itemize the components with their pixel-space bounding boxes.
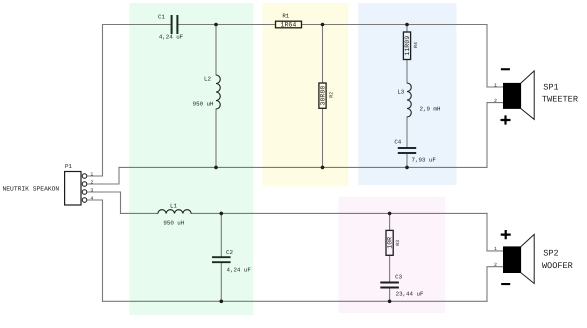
- junction C2 bottom: [220, 300, 224, 304]
- highlight region pink (zobel section): [338, 197, 445, 313]
- highlight region yellow (R divider section): [263, 3, 349, 187]
- svg-text:1: 1: [90, 171, 93, 177]
- svg-text:R3: R3: [395, 240, 401, 246]
- svg-text:950 uH: 950 uH: [163, 220, 184, 227]
- svg-text:2: 2: [90, 179, 93, 185]
- svg-text:10R: 10R: [387, 237, 394, 249]
- junction C4 bottom: [405, 166, 409, 170]
- junction C3 bottom: [388, 300, 392, 304]
- svg-text:C1: C1: [158, 13, 165, 20]
- svg-text:SP1: SP1: [543, 83, 558, 93]
- svg-text:WOOFER: WOOFER: [542, 261, 573, 271]
- wire R2 bottom stub: [322, 108, 324, 167]
- svg-text:30R80: 30R80: [320, 86, 327, 106]
- wire woofer pin1 drop: [487, 213, 504, 251]
- wire woofer pin2 drop: [487, 267, 504, 302]
- wire C2 top stub: [220, 213, 222, 256]
- pin 3 of P1: [82, 187, 93, 194]
- inductor L2: [193, 75, 221, 109]
- svg-text:1R64: 1R64: [280, 22, 296, 29]
- wire P1 pin2 to mid rail: [87, 167, 119, 184]
- wire C4 bottom stub: [406, 154, 408, 167]
- svg-text:23,44 uF: 23,44 uF: [396, 291, 424, 298]
- junction R4 top: [405, 23, 409, 27]
- svg-text:P1: P1: [65, 163, 72, 170]
- SP1 minus polarity: [501, 68, 510, 70]
- svg-text:11R09: 11R09: [404, 36, 411, 56]
- speaker SP2: [504, 234, 573, 283]
- highlight region green (low-pass/shunt section): [129, 3, 253, 315]
- wire R4 top stub: [406, 25, 408, 33]
- pin 4 of P1: [82, 195, 93, 202]
- wire top rail left segment: [103, 24, 172, 26]
- junction R2 top: [321, 23, 325, 27]
- highlight region blue (RLC section): [358, 3, 456, 185]
- wire R3 to C3: [389, 255, 391, 281]
- SP1 plus polarity: [501, 115, 511, 124]
- resistor R4: [403, 32, 418, 60]
- wire tweeter pin1 drop: [487, 25, 504, 88]
- svg-text:C3: C3: [395, 273, 402, 280]
- svg-text:C2: C2: [226, 249, 233, 256]
- junction R3 top: [388, 212, 392, 216]
- svg-text:2: 2: [494, 262, 497, 268]
- wire R3 top stub: [389, 213, 391, 230]
- wire woofer path right of L1: [191, 212, 487, 214]
- resistor R1: [276, 12, 302, 28]
- junction C2 top: [220, 212, 224, 216]
- pin 1 of P1: [82, 171, 93, 178]
- svg-text:2,9 mH: 2,9 mH: [420, 105, 441, 112]
- wire P1 pin1 to top rail: [87, 25, 103, 177]
- svg-text:2: 2: [494, 98, 497, 104]
- svg-text:3: 3: [90, 187, 93, 193]
- wire P1 pin3 to woofer path: [87, 192, 121, 213]
- resistor R2: [319, 83, 335, 108]
- inductor L3: [397, 83, 441, 117]
- wire R2 top stub: [322, 25, 324, 84]
- capacitor C4: [394, 139, 436, 164]
- wire L2 bottom stub: [215, 109, 217, 167]
- wire top rail R1 to tweeter corner: [302, 24, 488, 26]
- svg-text:L3: L3: [397, 89, 404, 96]
- svg-text:L1: L1: [170, 203, 177, 210]
- SP2 minus polarity: [501, 283, 510, 285]
- junction L2 top: [214, 23, 218, 27]
- wire L2 top stub: [215, 25, 217, 76]
- svg-text:R1: R1: [282, 12, 289, 19]
- svg-text:C4: C4: [394, 139, 401, 146]
- svg-text:4: 4: [90, 195, 93, 201]
- pin 2 of P1: [82, 179, 93, 186]
- svg-text:4,24 uF: 4,24 uF: [227, 267, 252, 274]
- wire C2 bottom stub: [220, 263, 222, 301]
- wire L3 to C4: [406, 117, 408, 147]
- svg-text:R2: R2: [329, 92, 335, 98]
- junction R2 bottom: [321, 166, 325, 170]
- wire C3 bottom stub: [389, 289, 391, 302]
- svg-text:TWEETER: TWEETER: [542, 95, 578, 105]
- wire mid rail: [119, 166, 487, 168]
- svg-text:1: 1: [494, 82, 497, 88]
- speaker SP1: [504, 71, 579, 120]
- svg-text:NEUTRIK SPEAKON: NEUTRIK SPEAKON: [3, 185, 60, 192]
- svg-text:950 uH: 950 uH: [193, 100, 214, 107]
- junction L2 bottom: [214, 166, 218, 170]
- inductor L1: [158, 203, 191, 227]
- capacitor C1: [158, 13, 184, 40]
- svg-text:1: 1: [494, 246, 497, 252]
- connector P1: [3, 163, 82, 205]
- capacitor C2: [212, 249, 251, 274]
- svg-text:R4: R4: [413, 42, 419, 48]
- capacitor C3: [380, 273, 424, 297]
- wire tweeter pin2 riser: [487, 103, 504, 168]
- svg-text:7,93 uF: 7,93 uF: [412, 156, 437, 163]
- wire bottom rail: [103, 300, 488, 302]
- wire P1 pin4 to bottom rail: [87, 200, 103, 301]
- wire woofer path left of L1: [121, 212, 158, 214]
- SP2 plus polarity: [501, 230, 511, 239]
- svg-text:L2: L2: [204, 76, 211, 83]
- wire top rail C1 to R1: [178, 24, 276, 26]
- resistor R3: [386, 230, 401, 255]
- svg-text:SP2: SP2: [543, 249, 558, 259]
- wire R4 to L3: [406, 60, 408, 84]
- svg-text:4,24 uF: 4,24 uF: [159, 34, 184, 41]
